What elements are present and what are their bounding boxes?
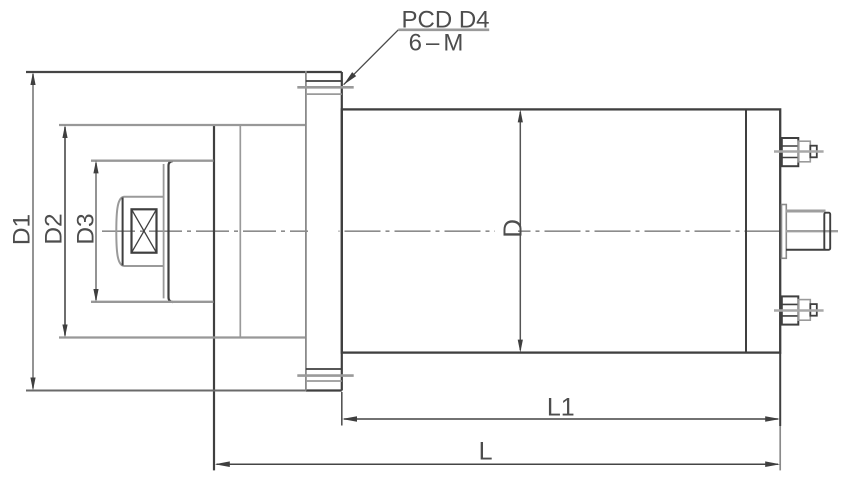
svg-text:D1: D1 bbox=[9, 214, 36, 245]
flange bolt line top gray bbox=[306, 93, 342, 95]
extension line right body edge down gray bbox=[779, 426, 781, 470]
middle connector body bbox=[786, 211, 826, 250]
shaft key cross box bbox=[132, 209, 157, 252]
shaft end rounded profile bbox=[116, 197, 163, 266]
D3 step face line bbox=[163, 164, 165, 298]
extension line L1 left (flange edge down) bbox=[341, 392, 343, 426]
D2 housing front face bbox=[213, 124, 215, 470]
middle connector centerline bbox=[786, 230, 838, 232]
dimension line D2 bbox=[62, 125, 67, 338]
bottom fitting centerline bbox=[774, 309, 824, 312]
extension line D1 bottom bbox=[26, 390, 306, 392]
svg-text:L: L bbox=[479, 438, 493, 466]
extension line right body edge down dark bbox=[779, 353, 781, 426]
top fitting tip bbox=[810, 146, 817, 158]
svg-text:D3: D3 bbox=[73, 213, 100, 244]
motor body bbox=[342, 109, 780, 352]
motor end cap line bbox=[745, 109, 747, 352]
middle connector cap bbox=[824, 213, 830, 250]
top fitting centerline bbox=[774, 150, 824, 153]
svg-text:D2: D2 bbox=[41, 213, 68, 244]
extension line D3 bottom / housing bottom edge bbox=[91, 301, 214, 303]
D3 cylinder housing left edge bbox=[169, 161, 174, 302]
dimension line D1 bbox=[30, 72, 35, 391]
D2 housing seam bbox=[239, 124, 241, 337]
flange bolt line bottom gray bbox=[306, 380, 342, 382]
dimension line D bbox=[518, 109, 523, 352]
shaft end face edge bbox=[122, 198, 124, 266]
extension line D2 bottom bbox=[59, 336, 306, 338]
top fitting sleeve bbox=[798, 141, 810, 162]
extension line D1 top bbox=[26, 71, 306, 73]
bottom fitting sleeve bbox=[798, 300, 810, 321]
top fitting nut bbox=[782, 138, 799, 166]
white mask behind D label bbox=[495, 212, 518, 241]
svg-text:L1: L1 bbox=[547, 394, 575, 422]
extension line D2 top bbox=[59, 124, 306, 126]
flange bolt line top dark bbox=[306, 80, 342, 82]
bottom fitting nut bbox=[782, 296, 799, 324]
svg-text:6–M: 6–M bbox=[409, 29, 468, 56]
dimension line L bbox=[215, 461, 780, 467]
centerline main horizontal axis bbox=[102, 230, 308, 232]
middle connector plate bbox=[782, 205, 787, 259]
extension line D3 top / housing top edge bbox=[91, 160, 214, 162]
PCD line bottom bbox=[297, 374, 353, 377]
bottom fitting tip bbox=[810, 304, 817, 316]
dimension line D3 bbox=[93, 160, 98, 302]
leader line PCD bbox=[344, 30, 490, 85]
dimension line L1 bbox=[342, 416, 780, 422]
svg-text:D: D bbox=[497, 219, 527, 238]
mounting flange plate bbox=[306, 71, 342, 391]
flange bolt line bottom dark bbox=[306, 368, 342, 370]
PCD line top bbox=[297, 86, 353, 89]
